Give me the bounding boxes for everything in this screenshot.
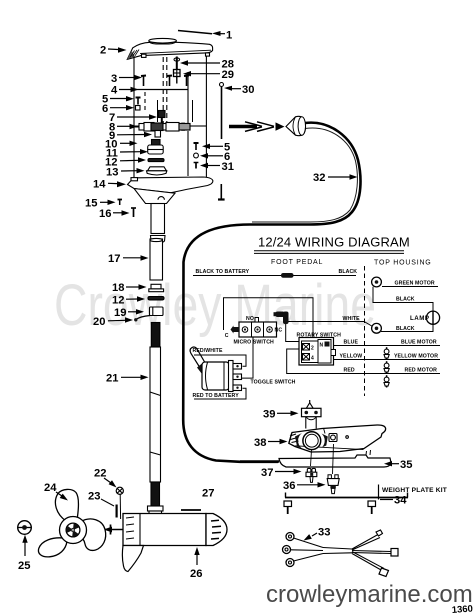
terminal T2 [372, 323, 382, 333]
power cable stub from motor head [229, 125, 257, 129]
label 33 [304, 527, 331, 541]
washer item 12b [148, 297, 164, 300]
label 3 [111, 73, 142, 85]
svg-text:MICRO SWITCH: MICRO SWITCH [234, 340, 275, 346]
label 5b [202, 142, 230, 154]
svg-text:4: 4 [111, 85, 118, 97]
svg-text:19: 19 [114, 307, 126, 319]
svg-text:1: 1 [226, 30, 232, 42]
weight plate item 34 [285, 493, 408, 498]
svg-text:2: 2 [100, 45, 106, 57]
label 37 [261, 467, 302, 479]
motor cover item 2 [127, 42, 212, 59]
cable clamp item 37 [306, 468, 317, 482]
C terminal stud [231, 326, 240, 334]
svg-text:N: N [320, 343, 324, 349]
svg-text:YELLOW: YELLOW [340, 354, 363, 360]
steering bracket item 19 [136, 307, 164, 320]
cover dome [149, 38, 177, 43]
svg-text:NC: NC [275, 328, 283, 334]
label 19 [114, 307, 144, 319]
nut item 29 [174, 70, 181, 84]
nose vents [211, 519, 219, 522]
svg-text:YELLOW MOTOR: YELLOW MOTOR [394, 354, 438, 360]
svg-text:LAMP: LAMP [410, 315, 430, 322]
label 23 [88, 491, 114, 507]
label 25 [18, 535, 30, 572]
svg-text:C: C [225, 333, 229, 339]
svg-text:33: 33 [318, 527, 330, 539]
lamp [426, 311, 439, 324]
center axis dashed [162, 57, 164, 123]
label 16 [99, 208, 130, 220]
title underline double [254, 250, 404, 252]
long lower tube item 21 [150, 347, 161, 482]
svg-text:RED TO BATTERY: RED TO BATTERY [193, 393, 240, 399]
propeller item 24 [38, 489, 105, 556]
svg-text:26: 26 [190, 568, 202, 580]
svg-text:ROTARY SWITCH: ROTARY SWITCH [297, 333, 342, 339]
pin item 31 right [194, 162, 199, 169]
svg-text:BLUE MOTOR: BLUE MOTOR [401, 340, 437, 346]
label 24 [44, 482, 68, 501]
label 32 [313, 172, 358, 184]
drain screw item 22 [116, 487, 123, 519]
svg-text:29: 29 [222, 69, 234, 81]
svg-text:GREEN MOTOR: GREEN MOTOR [395, 281, 435, 287]
wiring harness item 33 [283, 530, 399, 577]
svg-text:14: 14 [93, 179, 106, 191]
lower motor unit item 26 [123, 514, 227, 546]
label 39 [263, 409, 299, 421]
bullet connector 2 [384, 361, 389, 373]
micro switch part 39 [302, 400, 322, 429]
wire white [289, 322, 372, 327]
dark shaft section [151, 323, 160, 348]
foot pedal body item 38 [289, 425, 386, 452]
svg-text:39: 39 [263, 409, 275, 421]
svg-text:36: 36 [283, 480, 295, 492]
label 27 [202, 488, 214, 500]
item 27 reference line [181, 509, 201, 511]
grommet item 36 [327, 475, 339, 494]
label 21 [106, 373, 149, 385]
svg-text:4: 4 [311, 356, 314, 362]
svg-text:17: 17 [108, 253, 120, 265]
motor body right side [205, 56, 207, 178]
top cover seam line (item 1 target) [178, 31, 212, 34]
label 8 [109, 121, 138, 133]
label 31 [200, 161, 234, 173]
micro switch body [231, 318, 277, 338]
svg-text:24: 24 [44, 482, 57, 494]
plate bolt left [284, 501, 292, 514]
svg-text:RED: RED [344, 368, 355, 374]
svg-text:NO: NO [246, 316, 254, 322]
leader dashes pedal to clamps [311, 450, 312, 466]
label 10 [105, 138, 138, 150]
label 14 [93, 179, 126, 191]
skeg fin [122, 546, 143, 572]
label 35 [384, 459, 412, 471]
svg-text:23: 23 [88, 491, 100, 503]
svg-text:BLACK TO BATTERY: BLACK TO BATTERY [196, 269, 250, 275]
inline splice on battery wire [281, 273, 294, 278]
toggle switch [190, 347, 241, 392]
washer item 6b right [194, 153, 199, 158]
screw item 5 (left) [136, 98, 141, 105]
end cap hatch marks [126, 517, 134, 518]
wire green motor [382, 286, 438, 288]
pedal base plate item 35 [240, 450, 391, 467]
wire NO to toggle [242, 338, 253, 379]
elbow connector [274, 312, 289, 325]
motor body left side [133, 56, 135, 179]
pin right of pod [218, 184, 225, 200]
shaft tube item 17 [150, 238, 163, 280]
label 7 [109, 112, 157, 124]
svg-text:18: 18 [112, 282, 124, 294]
svg-text:2: 2 [311, 346, 314, 352]
label 4 [111, 85, 188, 97]
label 34 [380, 495, 407, 507]
screw (second) [167, 75, 172, 78]
svg-text:3: 3 [111, 73, 117, 85]
label 22 [94, 468, 117, 488]
flange item 13 [147, 167, 167, 175]
screw item 5b right [194, 143, 199, 150]
svg-text:BLACK: BLACK [339, 269, 358, 275]
svg-text:30: 30 [242, 84, 254, 96]
svg-text:15: 15 [85, 198, 97, 210]
svg-text:12/24 WIRING DIAGRAM: 12/24 WIRING DIAGRAM [258, 235, 410, 250]
cover feet [142, 54, 147, 57]
label 12b [112, 294, 145, 306]
label 38 [254, 437, 288, 449]
svg-text:TOGGLE SWITCH: TOGGLE SWITCH [251, 380, 296, 386]
toggle lever handle [190, 347, 205, 367]
pod mount [134, 189, 175, 204]
bolt item 30 [220, 83, 224, 140]
motor body inner column [187, 72, 189, 123]
svg-text:WHITE: WHITE [343, 316, 361, 322]
screw (third) [184, 75, 189, 78]
wire elbow down to rotary [286, 324, 300, 342]
label 12 [105, 156, 146, 168]
label 20 [93, 316, 133, 328]
NO terminal tab [255, 318, 259, 323]
svg-text:12: 12 [112, 294, 124, 306]
cable direction chevrons [245, 122, 262, 132]
bolt item 28 [174, 57, 180, 71]
svg-text:BLACK: BLACK [396, 297, 415, 303]
pod housing item 14 area [128, 177, 213, 204]
svg-text:FOOT PEDAL: FOOT PEDAL [271, 259, 323, 266]
label 5 [102, 94, 134, 106]
prop shaft [104, 525, 124, 535]
wire red [287, 349, 440, 374]
terminal T1 [372, 277, 382, 287]
collar item 18 [149, 284, 164, 291]
rotary switch body [299, 338, 336, 366]
housing item 11 [148, 140, 164, 155]
weight plate kit tick [378, 485, 380, 500]
svg-text:16: 16 [99, 208, 111, 220]
svg-text:37: 37 [261, 467, 273, 479]
micro switch loop wire [224, 298, 314, 338]
bullet connector 3 [384, 375, 389, 387]
label 6 [102, 103, 134, 115]
wire blue [334, 345, 440, 347]
label 28 [180, 59, 234, 71]
label 26 [190, 547, 202, 580]
label 18 [112, 282, 147, 294]
svg-text:27: 27 [202, 488, 214, 500]
shaft coupler block [148, 506, 164, 517]
svg-text:crowleymarine.com: crowleymarine.com [266, 581, 473, 608]
screw item 20 [134, 318, 137, 321]
svg-text:WEIGHT PLATE KIT: WEIGHT PLATE KIT [382, 487, 447, 494]
wire lamp to T2 [381, 324, 433, 331]
screw item 3 [141, 75, 146, 78]
plate bolt right [368, 501, 376, 514]
armature item 8 [132, 123, 206, 132]
pin item 15 [118, 200, 123, 206]
dark lower shaft [151, 482, 160, 506]
label 1 [212, 30, 232, 42]
label 36 [283, 480, 326, 492]
svg-text:38: 38 [254, 437, 266, 449]
svg-text:BLUE: BLUE [344, 340, 359, 346]
svg-text:Crowley Marine: Crowley Marine [54, 273, 376, 338]
svg-text:TOP HOUSING: TOP HOUSING [374, 260, 432, 267]
toggle body [202, 362, 229, 390]
pin item 16 [131, 208, 136, 217]
svg-text:6: 6 [102, 103, 108, 115]
wire black-to-battery [193, 275, 356, 277]
label 17 [108, 253, 149, 265]
label 13 [106, 166, 145, 178]
svg-text:21: 21 [106, 373, 118, 385]
label 11 [106, 147, 148, 159]
svg-text:20: 20 [93, 316, 105, 328]
upper shaft tube [151, 204, 166, 244]
cable connector cone [286, 116, 306, 135]
toggle lever ferrule [197, 362, 211, 376]
svg-text:32: 32 [313, 172, 325, 184]
svg-text:BLACK: BLACK [396, 326, 415, 332]
label 15 [85, 198, 116, 210]
nut item 6 (left) [136, 106, 141, 111]
separator dashed line [364, 266, 366, 396]
wire red to battery [194, 388, 246, 399]
wire yellow [334, 359, 440, 361]
prop nut item 25 [18, 521, 32, 535]
label 29 [183, 69, 234, 81]
label 6b [200, 151, 230, 163]
label 2 [100, 45, 127, 57]
wire red/white [194, 355, 246, 366]
svg-text:1360: 1360 [451, 604, 473, 615]
spade terminals [233, 364, 242, 370]
svg-text:31: 31 [222, 161, 234, 173]
svg-text:25: 25 [18, 560, 30, 572]
washer item 12 [148, 159, 164, 162]
svg-text:RED MOTOR: RED MOTOR [405, 368, 438, 374]
svg-text:13: 13 [106, 166, 118, 178]
brush item 7 [159, 111, 166, 124]
label 30 [224, 84, 254, 96]
bearing item 9 [155, 131, 161, 138]
svg-text:34: 34 [394, 495, 407, 507]
main cable loop item 32 [183, 123, 360, 462]
svg-text:35: 35 [400, 459, 412, 471]
wire T1 to lamp [373, 287, 433, 311]
svg-text:RED/WHITE: RED/WHITE [193, 348, 223, 354]
pin item 23 [115, 505, 117, 518]
bullet connector 1 [384, 347, 389, 359]
label 9 [109, 130, 152, 142]
